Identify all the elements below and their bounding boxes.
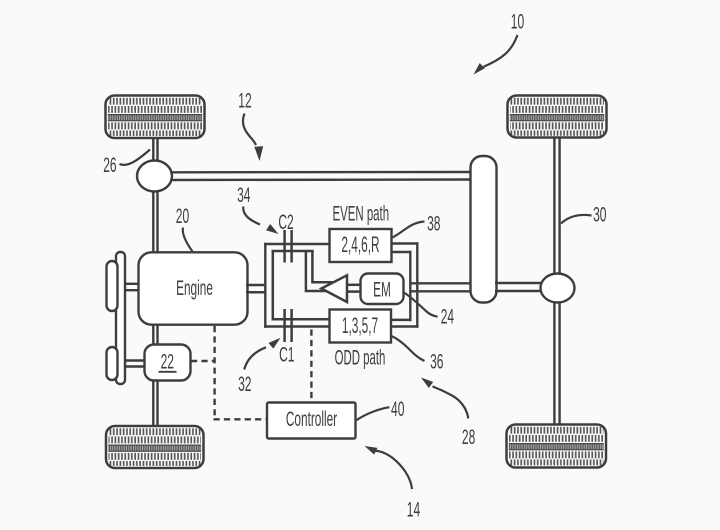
- leader arrow for 10: [484, 35, 518, 67]
- wire: rear propeller shaft: [495, 283, 542, 291]
- accessory pill upper: [107, 261, 118, 311]
- wire: left half-shaft differential to engine area: [153, 191, 157, 254]
- leader line for 38: [393, 222, 425, 238]
- wire: transmission output shaft: [411, 283, 471, 291]
- accessory pill lower: [107, 347, 118, 380]
- wheel W3 rear-left tire: [106, 426, 204, 468]
- box 38 EVEN path gears: [330, 229, 392, 262]
- svg-text:EVEN path: EVEN path: [333, 202, 390, 226]
- wire: front drive shaft 12: [170, 172, 471, 180]
- engine block 20: [139, 252, 248, 324]
- leader arrow for 14: [376, 451, 413, 489]
- controller 40: [267, 403, 356, 439]
- wire: clutch input outer vertical: [264, 243, 266, 328]
- svg-text:1,3,5,7: 1,3,5,7: [342, 313, 378, 338]
- wire: stub bar to box 22: [125, 361, 146, 367]
- wire: inner top line: [272, 250, 314, 253]
- svg-text:20: 20: [176, 203, 189, 228]
- svg-text:40: 40: [391, 396, 404, 421]
- svg-text:10: 10: [511, 9, 524, 34]
- leader arrow for 32: [244, 347, 266, 369]
- dashed control line: corner to controller: [214, 418, 268, 420]
- wire: bottom outer line to ODD box through C1: [264, 325, 330, 327]
- box 36 ODD path gears: [330, 310, 392, 343]
- rear differential: [541, 274, 575, 303]
- svg-text:34: 34: [237, 182, 251, 207]
- clutch C2 plates: [285, 230, 292, 263]
- svg-text:28: 28: [462, 424, 475, 449]
- svg-text:32: 32: [238, 371, 251, 396]
- wheel W2 front-right tire: [508, 96, 607, 138]
- svg-text:EM: EM: [373, 276, 391, 301]
- leader arrow for 12: [243, 114, 256, 146]
- front differential 26: [137, 161, 172, 192]
- svg-text:26: 26: [103, 152, 116, 177]
- wire: collector outer vertical: [416, 242, 418, 327]
- leader line for 30: [561, 215, 592, 224]
- dashed control line: box 22 to vertical: [191, 360, 215, 362]
- leader line for 26: [120, 150, 151, 165]
- leader arrow for 28: [433, 386, 469, 418]
- leader line for 20: [183, 228, 193, 252]
- wire: top line to EVEN box through C2: [264, 243, 330, 245]
- svg-text:C1: C1: [279, 342, 294, 367]
- wire: left half-shaft box 22 to wheel W3: [153, 380, 157, 427]
- electric motor EM 24: [361, 274, 404, 305]
- dashed control line: transmission to controller: [310, 330, 312, 403]
- wire: rail to motor triangle lower: [306, 251, 326, 292]
- accessory bar left of engine: [116, 252, 125, 384]
- motor coupling triangle: [321, 275, 347, 302]
- transfer case / final drive unit: [471, 156, 497, 303]
- wheel W4 rear-right tire: [507, 425, 607, 468]
- wire: rail to motor triangle upper: [312, 251, 332, 283]
- svg-text:24: 24: [441, 304, 455, 329]
- wire: engine output shaft: [246, 285, 267, 292]
- leader line for 24: [404, 293, 438, 317]
- svg-text:30: 30: [593, 202, 606, 227]
- svg-text:Controller: Controller: [286, 406, 337, 431]
- svg-text:C2: C2: [278, 209, 293, 234]
- wire: ODD box to collector double line: [390, 320, 418, 327]
- box 22 damper: [145, 345, 191, 381]
- svg-text:12: 12: [238, 88, 251, 113]
- wire: bottom inner line to ODD box through C1: [272, 318, 331, 321]
- leader line for 40: [356, 407, 389, 420]
- dashed control line: engine to controller vertical: [213, 326, 215, 419]
- wire: EVEN box to collector double line: [391, 244, 419, 253]
- svg-text:ODD path: ODD path: [335, 346, 386, 370]
- leader arrow for 34: [243, 207, 260, 225]
- wire: clutch input inner vertical: [272, 250, 275, 320]
- wire: collector inner vertical: [409, 251, 411, 321]
- wire: left half-shaft engine to box 22: [153, 325, 157, 345]
- svg-text:Engine: Engine: [176, 275, 213, 300]
- clutch C1 plates: [285, 309, 292, 342]
- svg-text:36: 36: [430, 349, 443, 374]
- wire: left half-shaft wheel W1 to front differential: [153, 138, 157, 162]
- wheel W1 front-left tire: [106, 96, 205, 139]
- svg-text:22: 22: [161, 349, 174, 374]
- svg-text:14: 14: [407, 497, 421, 522]
- wire: right half-shaft wheel W2 to rear differential: [554, 138, 559, 275]
- wire: EM to triangle double line: [346, 285, 362, 292]
- svg-text:2,4,6,R: 2,4,6,R: [341, 232, 379, 257]
- wire: stub bar to engine: [125, 284, 140, 290]
- leader line for 36: [392, 336, 425, 361]
- wire: right half-shaft rear differential to wheel W4: [554, 302, 559, 426]
- svg-text:38: 38: [427, 211, 440, 236]
